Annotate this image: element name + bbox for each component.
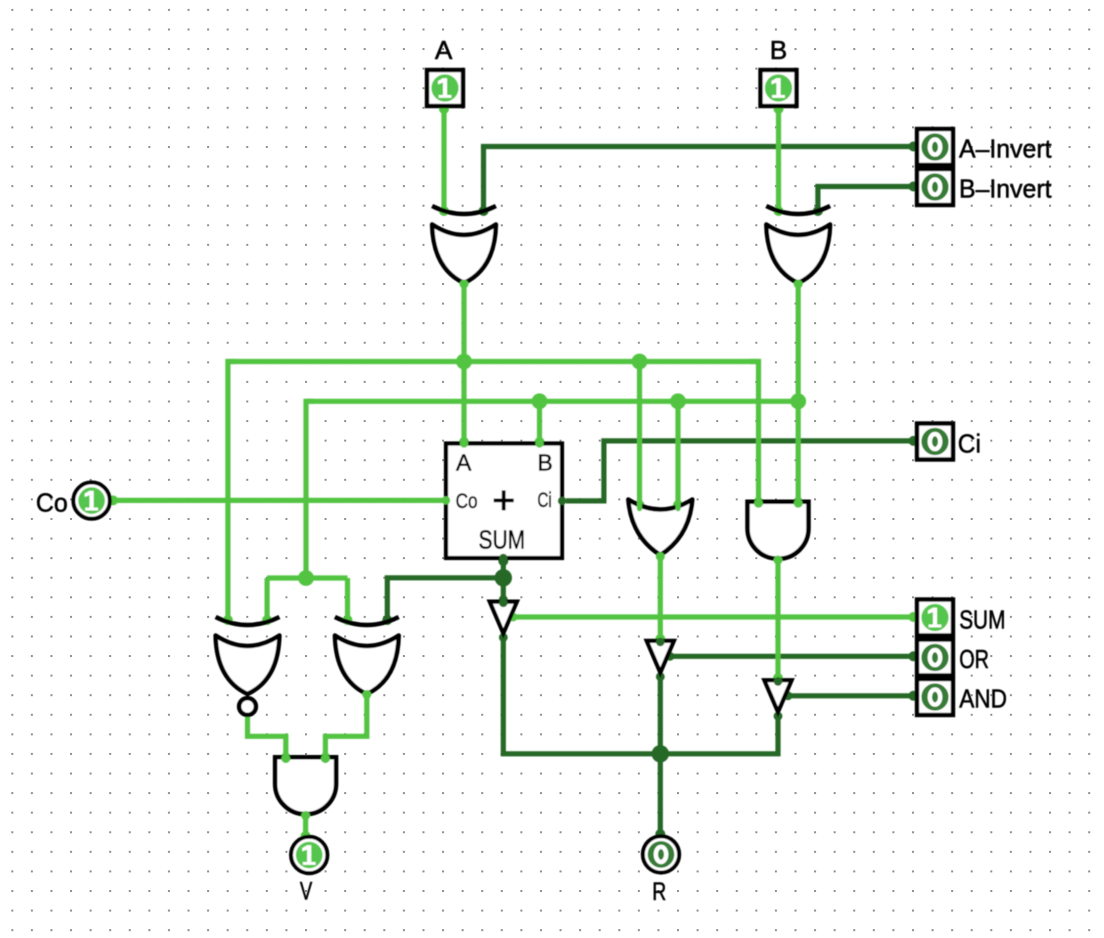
controlled buffer U3 (AND select) bbox=[764, 680, 791, 712]
wire node T horizontal bbox=[267, 575, 347, 580]
svg-text:B: B bbox=[770, 35, 788, 65]
junction bus2 node at OR drop bbox=[670, 393, 686, 409]
controlled buffer U2 (OR select) bbox=[647, 641, 674, 673]
svg-text:V: V bbox=[300, 878, 313, 906]
wire buffer U1 control to input pin SUM bbox=[509, 612, 919, 622]
input pin OR bbox=[917, 640, 953, 676]
wire bus2 left drop to node T bbox=[306, 401, 314, 578]
wire OR pin to buffer U2 control bbox=[666, 651, 919, 661]
OR1 input port stubs bbox=[640, 501, 679, 509]
wire bus1 drop to OR1 left input bbox=[635, 362, 645, 511]
svg-text:R: R bbox=[652, 878, 666, 906]
wire buffer U1 output to node R bbox=[499, 633, 660, 754]
svg-text:SUM: SUM bbox=[479, 525, 526, 555]
xnor gate XNOR1 bbox=[216, 617, 280, 715]
wire bus1 drop to adder A input bbox=[459, 362, 469, 448]
wire XOR1 output to bus1 bbox=[461, 283, 466, 362]
junction node S bbox=[495, 569, 512, 586]
AND1 input port nubs bbox=[754, 499, 803, 508]
svg-text:A–Invert: A–Invert bbox=[959, 134, 1052, 164]
wire XNOR output to AND2 left input bbox=[248, 716, 291, 763]
xor gate XOR1 (A xor A-Invert) bbox=[432, 206, 496, 283]
wire Ci pin to adder Ci input bbox=[566, 436, 919, 501]
label B bbox=[770, 35, 788, 65]
output pin V bbox=[291, 837, 327, 873]
svg-text:B: B bbox=[537, 450, 552, 476]
wire XOR2 output to bus2 bbox=[796, 283, 801, 401]
wire node R to output pin R bbox=[655, 754, 665, 839]
svg-text:A: A bbox=[435, 35, 453, 65]
wire buffer U3 output to node R bbox=[660, 712, 782, 754]
xor gate XOR3 bbox=[335, 617, 399, 694]
input pin Ci bbox=[917, 424, 953, 460]
junction bus2 node at XOR2 output bbox=[790, 393, 806, 409]
and gate AND1 bbox=[748, 502, 809, 559]
label SUM bbox=[959, 605, 1005, 635]
svg-text:Ci: Ci bbox=[537, 489, 552, 512]
wire adder Co output to output pin Co bbox=[108, 495, 444, 505]
adder U4 (SUM block) bbox=[446, 444, 562, 559]
label B-Invert bbox=[959, 174, 1052, 204]
junction bus1 node at OR drop bbox=[632, 354, 648, 370]
wire node T left drop to XNOR right input bbox=[262, 578, 272, 625]
wire buffer U2 output to node R bbox=[656, 672, 665, 754]
junction node T bbox=[298, 570, 314, 586]
junction bus2 node at adder B drop bbox=[532, 393, 548, 409]
svg-text:Co: Co bbox=[456, 490, 478, 513]
svg-text:Ci: Ci bbox=[958, 429, 981, 459]
svg-text:OR: OR bbox=[959, 644, 989, 674]
wire B-Invert pin to XOR2 right input bbox=[813, 182, 919, 217]
wire node S to XOR3 right input bbox=[382, 578, 503, 625]
gate output port nubs bbox=[301, 280, 803, 821]
label OR bbox=[959, 644, 989, 674]
svg-text:B–Invert: B–Invert bbox=[959, 174, 1052, 204]
controlled buffer U1 (SUM select) bbox=[490, 602, 517, 634]
input pin SUM bbox=[917, 600, 953, 636]
junction bus1 node at XOR1 output bbox=[456, 354, 472, 370]
input pin B-Invert bbox=[917, 169, 953, 205]
svg-text:SUM: SUM bbox=[959, 605, 1005, 635]
label R bbox=[652, 878, 666, 906]
output pin R bbox=[643, 836, 679, 872]
output pin Co bbox=[73, 482, 109, 518]
label Co bbox=[36, 488, 68, 518]
input pin A bbox=[427, 70, 463, 106]
adder port nubs bbox=[442, 439, 566, 562]
wire input pin B to XOR2 left input bbox=[774, 104, 784, 216]
svg-text:A: A bbox=[456, 450, 472, 476]
wire input pin A to XOR1 left input bbox=[439, 104, 449, 216]
input pin AND bbox=[917, 679, 953, 715]
svg-text:AND: AND bbox=[959, 684, 1007, 714]
wire bus1 horizontal bbox=[228, 359, 759, 364]
wire bus1 left drop to XNOR left input bbox=[223, 362, 236, 626]
wire node T right drop to XOR3 left input bbox=[343, 578, 353, 625]
label A-Invert bbox=[959, 134, 1052, 164]
input pin B bbox=[761, 70, 797, 106]
xor gate XOR2 (B xor B-Invert) bbox=[766, 206, 830, 283]
wire bus2 drop to adder B input bbox=[535, 401, 545, 447]
wire OR1 output to buffer U2 input bbox=[655, 556, 665, 644]
buffer input port nubs bbox=[499, 599, 782, 686]
or gate OR1 bbox=[628, 500, 692, 556]
svg-text:Co: Co bbox=[36, 488, 68, 518]
wire AND pin to buffer U3 control bbox=[784, 691, 919, 701]
AND2 input port nubs bbox=[281, 754, 330, 763]
wire adder SUM output to node S bbox=[498, 556, 508, 578]
label V bbox=[300, 878, 313, 906]
wire AND1 output to buffer U3 input bbox=[773, 560, 783, 684]
wire A-Invert pin to XOR1 right input bbox=[479, 142, 919, 217]
input pin A-Invert bbox=[917, 129, 953, 165]
wire bus2 end to AND1 right input bbox=[793, 401, 803, 507]
wire AND2 output to output pin V bbox=[301, 814, 311, 841]
and gate AND2 (overflow) bbox=[275, 757, 336, 814]
wire bus1 right drop to AND1 left input bbox=[750, 362, 764, 508]
wire bus2 drop to OR1 right input bbox=[673, 401, 683, 510]
label Ci bbox=[958, 429, 981, 459]
junction node R bbox=[652, 745, 669, 762]
wire XOR3 output to AND2 right input bbox=[320, 694, 366, 763]
wire bus2 horizontal bbox=[306, 399, 798, 404]
label AND bbox=[959, 684, 1007, 714]
wire node S to buffer U1 input bbox=[499, 578, 508, 604]
label A bbox=[435, 35, 453, 65]
